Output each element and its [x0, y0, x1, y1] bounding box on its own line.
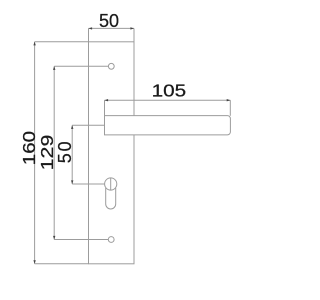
dim 160 extension line bottom: [35, 263, 89, 265]
dim 50 top extension line left: [88, 28, 90, 41]
dim 105 extension line left: [104, 100, 106, 115]
arrow dim50v bottom: [71, 180, 73, 184]
dim 105 line: [105, 99, 231, 101]
arrow dim105 left: [105, 99, 109, 101]
dim 50 vertical extension line bottom: [72, 183, 104, 185]
dim 50 top line: [89, 27, 135, 29]
dim 50 vertical extension line top: [72, 124, 104, 126]
dim 129 extension line top: [54, 65, 108, 67]
euro cylinder slot: [106, 188, 116, 209]
lever handle: [105, 116, 231, 135]
screw hole top: [108, 63, 114, 69]
dim 160 line: [34, 42, 36, 264]
euro cylinder keyway: [110, 178, 112, 190]
euro cylinder circle: [105, 178, 117, 190]
arrow dim50v top: [71, 125, 73, 129]
arrow dim129 top: [53, 66, 55, 70]
dim 50 vertical line: [71, 125, 73, 184]
dim 129 extension line bottom: [54, 239, 108, 241]
svg-text:50: 50: [99, 11, 119, 31]
plate (backplate rectangle): [89, 42, 135, 264]
dim 160 extension line top: [35, 41, 89, 43]
dim 50 top extension line right: [133, 28, 135, 41]
arrow dim105 right: [227, 99, 231, 101]
dim 129 line: [53, 66, 55, 239]
arrow dim160 top: [33, 42, 35, 46]
screw hole bottom: [108, 237, 114, 243]
arrow dim129 bottom: [53, 236, 55, 240]
svg-text:50: 50: [55, 140, 75, 164]
arrow dim160 bottom: [33, 260, 35, 264]
arrow dim50top right: [130, 27, 134, 29]
dim 105 extension line right: [229, 100, 231, 116]
arrow dim50top left: [89, 27, 93, 29]
svg-text:105: 105: [152, 81, 186, 101]
